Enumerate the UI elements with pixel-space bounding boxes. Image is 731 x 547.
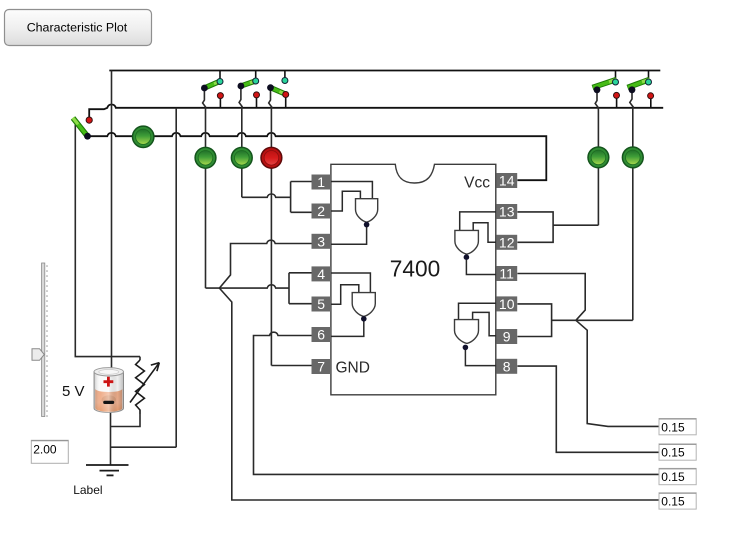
svg-text:10: 10 [499,296,515,312]
LED L3 green [231,147,252,168]
switch S1 (left, near battery) [73,117,92,140]
NAND gate U1D [455,303,499,365]
switch S6 [628,71,654,321]
NAND gate U1B [331,273,375,336]
wire red LED line to pin 7 [271,365,311,367]
pin 7 [312,359,332,375]
button Characteristic Plot [5,10,152,46]
svg-text:0.15: 0.15 [661,420,685,434]
svg-text:12: 12 [499,234,515,250]
pin 12 [496,234,517,250]
battery B1 [94,368,124,413]
meter box 0.15 #4 [659,493,696,509]
wire battery bottom to ground [110,411,112,465]
IC U1 7400 body [331,164,496,394]
svg-text:0.15: 0.15 [661,495,685,509]
svg-text:9: 9 [503,329,511,345]
textbox 2.00 [31,440,68,463]
wire pin3 to left junction and down to box4 [219,240,659,500]
slider control [32,263,48,417]
svg-text:2.00: 2.00 [33,443,57,457]
svg-text:7: 7 [317,359,325,375]
switch S2 [201,71,223,289]
switch S3 [238,71,260,198]
NAND gate U1A [331,182,378,245]
svg-text:4: 4 [317,266,325,282]
pin 1 [312,174,332,190]
pin 5 [312,296,332,312]
pin 3 [312,233,332,249]
wire top rail Vcc bus [109,70,660,72]
svg-text:5 V: 5 V [62,383,85,400]
pin 10 [496,296,517,312]
svg-text:8: 8 [503,358,511,374]
svg-text:7400: 7400 [390,255,441,281]
switch S4 (thrown to red) [267,71,289,366]
wire battery bottom row to minus vertical [111,446,177,448]
wire pin 8 to meter box 2 [517,366,659,452]
pin 11 [496,266,517,282]
svg-text:14: 14 [499,173,515,189]
wire pins 10/9 tie and junction bus [517,304,632,337]
LED L2 green [195,147,216,168]
wire LED3 line to pins 1-2 [242,182,312,213]
wire rheostat top stem [139,357,141,360]
pin 13 [496,204,517,220]
LED L5 green [588,147,609,168]
svg-text:11: 11 [499,266,514,282]
svg-text:2: 2 [317,203,325,219]
pin 14 [496,173,517,189]
wire battery plus vertical (top rail to battery top) [111,71,113,370]
pin 6 [312,327,332,343]
wire LED1/Vcc rail to pin 14 [88,133,547,180]
pin 9 [496,329,517,345]
svg-text:0.15: 0.15 [661,446,685,460]
wire pin3 junction to pins 4-5 feeder [206,273,312,304]
label Label [73,483,102,497]
wire rail2 to battery-minus vertical [175,108,177,447]
wire pins 13/12 tie to LED5 line [517,212,598,242]
wire left switch common vertical down to battery row [75,124,140,357]
svg-text:5: 5 [317,296,325,312]
svg-text:13: 13 [499,204,515,220]
pin 4 [312,266,332,282]
wire pin6 down to box3 [254,332,660,474]
svg-text:1: 1 [317,174,325,190]
pin 2 [312,203,332,219]
meter box 0.15 #1 [659,419,696,435]
wire battery bottom to rheostat bottom [111,414,141,427]
wire pin 11 to right junction [517,274,585,321]
NAND gate U1C [455,212,496,275]
pin 8 [496,358,517,374]
svg-text:Label: Label [73,483,102,497]
svg-text:Vcc: Vcc [464,175,490,192]
svg-text:Characteristic Plot: Characteristic Plot [27,21,128,35]
meter box 0.15 #2 [659,444,696,460]
LED L4 red [261,147,282,168]
wire second rail (red contacts bus) [89,104,663,117]
switch S5 [593,71,620,226]
LED L1 green [133,126,154,147]
meter box 0.15 #3 [659,468,696,484]
wire junction down to meter box 1 [576,320,659,426]
ground [86,465,129,475]
label 5 V [62,383,85,400]
svg-text:GND: GND [336,360,370,377]
LED L6 green [622,147,643,168]
rheostat R1 [130,360,159,414]
svg-text:0.15: 0.15 [661,470,685,484]
svg-text:3: 3 [317,233,325,249]
svg-text:6: 6 [317,327,325,343]
